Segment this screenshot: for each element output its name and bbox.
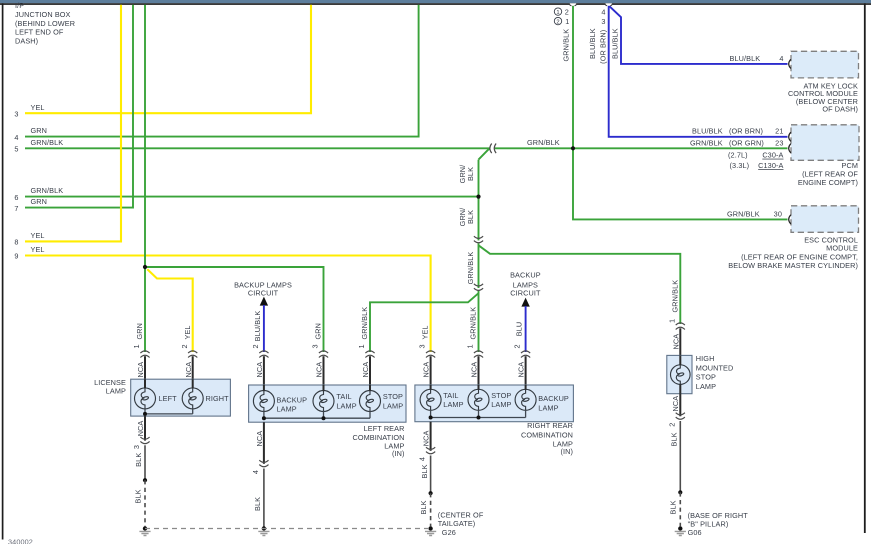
label stop lamp left-rear xyxy=(383,392,403,410)
module PCM box xyxy=(791,125,859,161)
svg-text:4: 4 xyxy=(601,7,605,16)
label BLU/BLK (OR BRN) 21 xyxy=(692,127,784,136)
svg-text:(OR BRN): (OR BRN) xyxy=(599,30,608,64)
svg-text:BLU/BLK: BLU/BLK xyxy=(588,28,597,59)
svg-text:LEFT: LEFT xyxy=(159,394,178,403)
wire GRN/BLK to high mounted stop lamp xyxy=(479,245,681,324)
connector pin ESC 30 xyxy=(789,215,791,224)
svg-text:BLK: BLK xyxy=(134,453,143,467)
wire GRN/BLK to ESC module xyxy=(573,148,788,219)
connector inline on GRN/BLK branch upper xyxy=(474,236,483,243)
left frame line xyxy=(2,3,4,539)
label backup lamp left-rear xyxy=(277,395,308,413)
svg-text:NCA: NCA xyxy=(361,362,370,378)
label right rear combination lamp xyxy=(521,421,573,456)
svg-text:CIRCUIT: CIRCUIT xyxy=(510,289,541,298)
connector high mount pin 1 xyxy=(667,319,685,350)
svg-text:RIGHT: RIGHT xyxy=(206,394,230,403)
wire left-rear internal ground xyxy=(264,411,370,418)
node left-rear ground junctions xyxy=(262,416,326,420)
svg-text:MODULE: MODULE xyxy=(826,243,858,252)
svg-text:TAIL: TAIL xyxy=(443,391,458,400)
label LEFT xyxy=(159,394,178,403)
lamp left-rear backup xyxy=(253,385,274,412)
svg-text:(BASE OF RIGHT: (BASE OF RIGHT xyxy=(688,511,749,520)
svg-text:NCA: NCA xyxy=(517,362,526,378)
svg-text:COMBINATION: COMBINATION xyxy=(521,431,573,440)
label BLU/BLK vertical 2 xyxy=(611,28,620,59)
wire pin4 GRN xyxy=(25,5,419,137)
svg-text:23: 23 xyxy=(775,138,783,147)
svg-text:GRN: GRN xyxy=(31,197,48,206)
svg-text:3: 3 xyxy=(14,109,18,118)
wire ground bus dashed xyxy=(145,528,431,530)
wire pin9 YEL to right-rear tail lamp xyxy=(25,256,431,353)
svg-text:TAIL: TAIL xyxy=(336,392,351,401)
node right-rear ground junctions xyxy=(429,416,481,420)
label ATM module name xyxy=(788,81,858,113)
svg-text:(3.3L): (3.3L) xyxy=(730,161,750,170)
svg-text:3: 3 xyxy=(418,344,427,348)
svg-text:BLK: BLK xyxy=(420,464,429,478)
svg-text:BLK: BLK xyxy=(670,432,679,446)
svg-text:3: 3 xyxy=(601,17,605,26)
svg-text:NCA: NCA xyxy=(422,362,431,378)
label BLU/BLK left backup xyxy=(253,311,262,342)
svg-text:RIGHT REAR: RIGHT REAR xyxy=(527,421,573,430)
svg-text:LAMP: LAMP xyxy=(443,400,463,409)
svg-text:LAMP: LAMP xyxy=(696,382,716,391)
label tail lamp left-rear xyxy=(336,392,356,410)
svg-text:NCA: NCA xyxy=(136,362,145,378)
lamp high mounted xyxy=(671,355,691,393)
node junction GRN/BLK at PCM wire xyxy=(571,146,575,150)
svg-text:2: 2 xyxy=(667,423,676,427)
connector lamp pin 2 at x=525.6 xyxy=(513,344,531,377)
label backup lamps circuit right xyxy=(510,271,541,298)
wire black stubs into lamp boxes xyxy=(145,356,526,385)
svg-text:6: 6 xyxy=(14,193,18,202)
svg-text:I/P: I/P xyxy=(15,1,24,10)
svg-text:1: 1 xyxy=(357,344,366,348)
svg-text:GRN: GRN xyxy=(314,323,323,340)
svg-text:BLU: BLU xyxy=(515,322,524,337)
connector lamp pin 1 at x=478.5 xyxy=(466,307,484,378)
connector pin PCM 23 xyxy=(789,144,791,153)
wire YEL branch to license right lamp xyxy=(147,269,192,352)
lamp left-rear tail xyxy=(313,385,334,412)
svg-text:BACKUP: BACKUP xyxy=(538,394,569,403)
label BLU/BLK 4 at ATM xyxy=(730,54,784,63)
svg-text:5: 5 xyxy=(14,145,18,154)
svg-text:2: 2 xyxy=(556,19,559,25)
svg-text:9: 9 xyxy=(14,252,18,261)
svg-text:OF DASH): OF DASH) xyxy=(822,105,858,114)
connector inline on GRN/BLK branch lower xyxy=(474,284,483,291)
right rear combination lamp box xyxy=(415,385,574,422)
svg-text:GRN: GRN xyxy=(31,126,48,135)
ground drop license lamp xyxy=(132,416,151,535)
lamp license right xyxy=(182,379,203,409)
svg-text:STOP: STOP xyxy=(696,373,716,382)
ground drop left rear lamp xyxy=(251,422,270,535)
svg-text:STOP: STOP xyxy=(491,391,511,400)
svg-text:BLU/BLK: BLU/BLK xyxy=(611,28,620,59)
wire pin8 YEL xyxy=(25,5,121,242)
connector pin ATM 4 xyxy=(789,59,791,68)
label license lamp xyxy=(94,378,126,396)
label GRN/BLK on pin5 wire xyxy=(527,138,560,147)
label connector numbers C1 C2 xyxy=(554,7,569,26)
label PCM module name xyxy=(798,161,859,187)
wire GRN/BLK branch diagonal from pin5 xyxy=(479,148,490,159)
svg-text:NCA: NCA xyxy=(422,431,431,447)
svg-text:GRN/BLK: GRN/BLK xyxy=(466,252,475,285)
connector inline on pin5 wire xyxy=(490,144,496,154)
lamp license left xyxy=(135,379,156,409)
svg-text:TAILGATE): TAILGATE) xyxy=(438,519,476,528)
label RIGHT xyxy=(206,394,230,403)
label GRN/BLK high mount xyxy=(670,280,679,313)
svg-text:LEFT REAR: LEFT REAR xyxy=(364,424,405,433)
svg-text:4: 4 xyxy=(251,470,260,474)
svg-text:BLU/BLK: BLU/BLK xyxy=(253,311,262,342)
svg-text:BLK: BLK xyxy=(419,500,428,514)
wire BLU/BLK to PCM pin21 xyxy=(609,6,788,137)
svg-text:BACKUP: BACKUP xyxy=(277,395,308,404)
svg-text:(LEFT REAR OF ENGINE COMPT,: (LEFT REAR OF ENGINE COMPT, xyxy=(741,252,858,261)
label pins 4 3 xyxy=(601,7,605,26)
svg-text:YEL: YEL xyxy=(31,103,45,112)
svg-text:BLK: BLK xyxy=(133,489,142,503)
svg-text:JUNCTION BOX: JUNCTION BOX xyxy=(15,10,71,19)
connector lamp pin 3 at x=430.6 xyxy=(418,325,436,377)
svg-text:340002: 340002 xyxy=(8,537,33,544)
svg-text:1: 1 xyxy=(132,344,141,348)
wire pin5 GRN/BLK to PCM xyxy=(25,147,788,149)
label GRN/BLK branch seg2 xyxy=(458,207,475,227)
wire BLU/BLK left backup xyxy=(263,305,265,352)
svg-text:MOUNTED: MOUNTED xyxy=(696,363,734,372)
wire right-rear internal ground xyxy=(431,410,526,417)
lamp left-rear stop xyxy=(360,385,381,412)
wire GRN license feed vertical xyxy=(144,5,146,352)
svg-text:G26: G26 xyxy=(442,528,456,537)
label high mounted stop lamp xyxy=(696,354,734,391)
svg-text:(OR BRN): (OR BRN) xyxy=(729,127,763,136)
wire GRN branch to left-rear tail lamp xyxy=(145,267,324,352)
label backup lamp right-rear xyxy=(538,394,569,412)
top toolbar bar xyxy=(0,0,871,3)
svg-text:NCA: NCA xyxy=(671,396,680,412)
wire BLU right backup xyxy=(525,306,527,352)
svg-text:2: 2 xyxy=(180,344,189,348)
svg-text:LAMP: LAMP xyxy=(277,405,297,414)
label G26 xyxy=(438,511,484,538)
connector lamp pin 1 at x=370.0 xyxy=(357,307,375,378)
wire license internal ground xyxy=(145,409,193,414)
svg-text:GRN/BLK: GRN/BLK xyxy=(561,29,570,62)
svg-text:STOP: STOP xyxy=(383,392,403,401)
svg-text:2: 2 xyxy=(565,7,569,16)
label GRN/BLK 30 at ESC xyxy=(727,209,782,218)
svg-text:8: 8 xyxy=(14,238,18,247)
svg-text:YEL: YEL xyxy=(421,325,430,339)
right frame line xyxy=(864,3,866,533)
svg-text:21: 21 xyxy=(775,127,783,136)
svg-text:(BEHIND LOWER: (BEHIND LOWER xyxy=(15,19,75,28)
lamp right-rear stop xyxy=(468,385,489,410)
svg-text:NCA: NCA xyxy=(136,421,145,437)
svg-text:C30-A: C30-A xyxy=(762,151,783,160)
svg-text:BLU/BLK: BLU/BLK xyxy=(692,127,723,136)
svg-text:BELOW BRAKE MASTER CYLINDER): BELOW BRAKE MASTER CYLINDER) xyxy=(728,261,858,270)
svg-text:GRN/BLK: GRN/BLK xyxy=(670,280,679,313)
label GRN/BLK (OR GRN) 23 xyxy=(690,138,784,147)
svg-text:CIRCUIT: CIRCUIT xyxy=(248,289,279,298)
label BLU right backup xyxy=(515,322,524,337)
svg-text:LAMP: LAMP xyxy=(336,401,356,410)
svg-text:LICENSE: LICENSE xyxy=(94,378,126,387)
svg-text:1: 1 xyxy=(667,319,676,323)
svg-text:NCA: NCA xyxy=(470,362,479,378)
svg-text:30: 30 xyxy=(774,209,782,218)
label BLU/BLK (OR BRN) vertical xyxy=(588,28,608,64)
lamp right-rear tail xyxy=(420,385,441,410)
svg-text:4: 4 xyxy=(14,133,18,142)
label backup lamps circuit left xyxy=(234,280,292,297)
wire GRN/BLK to left-rear stop lamp xyxy=(370,293,479,352)
label stop lamp right-rear xyxy=(491,391,511,409)
svg-text:LEFT END OF: LEFT END OF xyxy=(15,28,64,37)
wire pin6 GRN/BLK xyxy=(25,196,479,198)
arrow backup circuit left xyxy=(260,297,268,306)
svg-text:1: 1 xyxy=(466,344,475,348)
svg-text:LAMP: LAMP xyxy=(106,387,126,396)
svg-text:BLK: BLK xyxy=(669,500,678,514)
svg-text:GRN/BLK: GRN/BLK xyxy=(527,138,560,147)
ground drop high mounted stop lamp xyxy=(667,394,686,536)
wire pin7 GRN xyxy=(25,5,133,208)
svg-text:(IN): (IN) xyxy=(560,447,573,456)
label left rear combination lamp xyxy=(352,424,404,458)
svg-text:(IN): (IN) xyxy=(392,449,405,458)
svg-text:LAMP: LAMP xyxy=(538,403,558,412)
svg-text:C130-A: C130-A xyxy=(758,161,783,170)
svg-text:NCA: NCA xyxy=(255,362,264,378)
svg-text:3: 3 xyxy=(132,445,141,449)
label G06 xyxy=(688,511,749,537)
I/P junction box label xyxy=(15,1,75,45)
svg-text:1: 1 xyxy=(565,17,569,26)
svg-text:4: 4 xyxy=(418,457,427,461)
connector lamp pin 3 at x=323.5 xyxy=(311,323,329,378)
svg-text:NCA: NCA xyxy=(184,362,193,378)
label GRN/BLK branch seg3 xyxy=(466,252,475,285)
wire GRN/BLK branch vertical xyxy=(478,160,480,352)
svg-text:1: 1 xyxy=(556,10,559,16)
svg-text:BLK: BLK xyxy=(253,497,262,511)
node junction pin6 wire xyxy=(476,195,480,199)
connector lamp pin 2 at x=192.7 xyxy=(180,325,198,377)
label 3.3L C130-A xyxy=(730,161,784,170)
svg-text:NCA: NCA xyxy=(671,334,680,350)
wire pin3 YEL xyxy=(25,5,311,113)
svg-text:HIGH: HIGH xyxy=(696,354,715,363)
svg-text:BLK: BLK xyxy=(466,167,475,181)
connector bump GRN/BLK top xyxy=(569,3,577,5)
svg-text:(2.7L): (2.7L) xyxy=(728,151,748,160)
ground drop right rear lamp xyxy=(418,422,437,536)
connector bump BLU/BLK top xyxy=(605,3,613,5)
svg-text:DASH): DASH) xyxy=(15,36,38,45)
wire black stub high mount xyxy=(679,328,681,355)
junction box pin numbers and wire labels xyxy=(14,103,63,261)
label tail lamp right-rear xyxy=(443,391,463,409)
svg-text:G06: G06 xyxy=(688,528,702,537)
connector lamp pin 2 at x=263.9 xyxy=(251,344,269,377)
module ESC box xyxy=(791,206,859,233)
svg-text:GRN: GRN xyxy=(135,323,144,340)
svg-text:YEL: YEL xyxy=(183,325,192,339)
svg-text:BACKUP: BACKUP xyxy=(510,271,541,280)
arrow backup circuit right xyxy=(521,298,529,307)
svg-text:YEL: YEL xyxy=(31,231,45,240)
wire BLU/BLK to ATM module xyxy=(609,6,788,64)
node license ground junction xyxy=(143,412,147,416)
node junction GRN at license branch xyxy=(143,265,147,269)
left rear combination lamp box xyxy=(249,385,406,422)
svg-text:NCA: NCA xyxy=(315,362,324,378)
svg-text:GRN/BLK: GRN/BLK xyxy=(31,186,64,195)
svg-text:LAMP: LAMP xyxy=(383,401,403,410)
svg-text:GRN/BLK: GRN/BLK xyxy=(727,209,760,218)
connector pin PCM 21 xyxy=(789,132,791,141)
svg-text:(OR GRN): (OR GRN) xyxy=(729,138,764,147)
module ATM key lock box xyxy=(791,51,859,78)
svg-text:ENGINE COMPT): ENGINE COMPT) xyxy=(798,178,858,187)
label GRN/BLK vertical top xyxy=(561,29,570,62)
svg-text:3: 3 xyxy=(311,344,320,348)
wire GRN/BLK from top connector xyxy=(572,6,574,149)
svg-text:GRN/BLK: GRN/BLK xyxy=(469,307,478,340)
svg-text:7: 7 xyxy=(14,204,18,213)
svg-text:BLU/BLK: BLU/BLK xyxy=(730,54,761,63)
connector lamp pin 1 at x=145.0 xyxy=(132,323,150,378)
svg-text:GRN/BLK: GRN/BLK xyxy=(31,138,64,147)
svg-text:BLK: BLK xyxy=(466,210,475,224)
high mounted stop lamp box xyxy=(667,355,692,393)
svg-text:YEL: YEL xyxy=(31,245,45,254)
svg-text:2: 2 xyxy=(251,344,260,348)
label document number xyxy=(8,537,33,544)
svg-text:GRN/BLK: GRN/BLK xyxy=(360,307,369,340)
svg-text:NCA: NCA xyxy=(255,431,264,447)
svg-text:4: 4 xyxy=(779,54,783,63)
license lamp box xyxy=(131,379,231,416)
top frame line xyxy=(0,3,871,5)
svg-text:2: 2 xyxy=(513,344,522,348)
svg-text:GRN/BLK: GRN/BLK xyxy=(690,138,723,147)
label ESC module name xyxy=(728,235,858,270)
svg-text:LAMP: LAMP xyxy=(491,400,511,409)
label 2.7L C30-A xyxy=(728,151,784,160)
lamp right-rear backup xyxy=(515,385,536,410)
label GRN/BLK branch seg1 xyxy=(458,164,475,184)
